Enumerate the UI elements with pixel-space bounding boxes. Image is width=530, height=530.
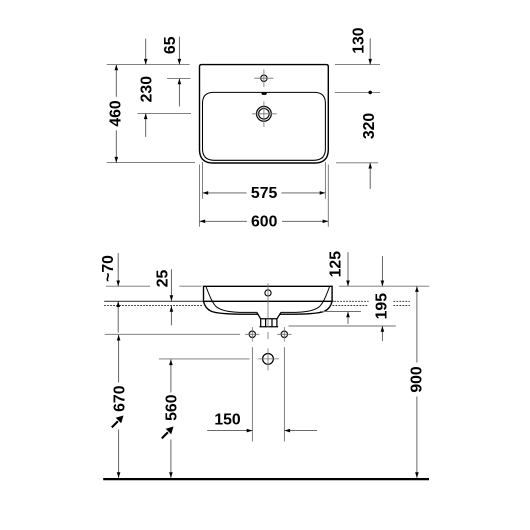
extension line bottom edge right (plan) <box>336 162 378 164</box>
basin interior left curve (elevation) <box>206 287 257 313</box>
dimension 600 line <box>200 220 329 222</box>
dimension 900 <box>416 286 418 478</box>
washbasin outer outline (plan) <box>200 65 329 163</box>
extension lines 575 (plan) <box>202 162 204 199</box>
svg-text:460: 460 <box>108 100 125 127</box>
extension line drain bottom right (195) <box>289 325 396 327</box>
wall line <box>104 300 334 302</box>
svg-text:130: 130 <box>351 27 368 54</box>
faucet hole crosshair (plan) <box>254 69 273 87</box>
dimension 25 <box>170 269 172 301</box>
dotted mounting line right <box>333 305 410 307</box>
floor line <box>103 478 429 480</box>
svg-text:195: 195 <box>373 293 390 320</box>
dimension 560 <box>170 359 172 478</box>
mounting hole right (elevation) <box>281 331 287 337</box>
approx arrow for 560 <box>162 432 168 438</box>
dimension 460 text <box>109 97 124 131</box>
extension line drain level (560) <box>159 358 250 360</box>
svg-text:560: 560 <box>163 394 180 421</box>
dimension 65 arrows <box>178 37 180 65</box>
svg-text:230: 230 <box>138 76 155 103</box>
svg-text:670: 670 <box>111 385 128 412</box>
washbasin rim outline (elevation) <box>204 286 333 301</box>
basin interior right curve (elevation) <box>281 287 330 313</box>
centerline (elevation) <box>267 283 269 339</box>
approx arrow for 670 <box>112 421 118 427</box>
dotted mounting line left <box>104 305 202 307</box>
extension line top edge left (plan) <box>107 64 190 66</box>
dimension 130 arrow <box>369 38 371 64</box>
dimension 150 <box>207 430 252 432</box>
svg-text:150: 150 <box>214 412 241 429</box>
drain nut (elevation) <box>260 319 279 327</box>
inner basin outline (plan) <box>203 92 326 160</box>
extension line mounting hole right down (150) <box>283 347 285 441</box>
extension line rim top left stub a <box>106 285 150 287</box>
faucet hole (plan) <box>261 75 267 81</box>
drain inner circle (plan) <box>259 109 270 120</box>
bowl underside left (elevation) <box>204 301 258 314</box>
extension line bowl bottom right (125) <box>320 311 361 313</box>
dimension 125 <box>347 252 349 286</box>
dimension 575 line <box>203 192 326 194</box>
junction dot 130/320 <box>368 91 372 95</box>
dimension 195 <box>381 256 383 286</box>
extension line mounting hole left down (150) <box>251 347 253 441</box>
drain outer circle (plan) <box>257 106 272 121</box>
extension line top edge right (plan) <box>335 64 380 66</box>
extension line bottom edge left (plan) <box>107 162 195 164</box>
dimension ~70 <box>117 253 119 286</box>
drain crosshair (plan) <box>252 102 277 128</box>
dimension 320 arrow <box>369 163 371 189</box>
dimension 600 text <box>247 214 282 230</box>
extension line basin top right (plan) <box>335 91 380 93</box>
extension line mounting holes level (670) <box>105 333 240 335</box>
svg-text:900: 900 <box>408 366 425 393</box>
extension lines 600 (plan) <box>199 165 201 227</box>
svg-text:600: 600 <box>251 214 278 231</box>
dimension 575 text <box>247 185 282 201</box>
overflow tick (plan) <box>261 93 267 95</box>
svg-text:575: 575 <box>251 185 278 202</box>
faucet hole (elevation) <box>265 290 271 296</box>
dimension 670 <box>118 335 120 478</box>
svg-text:25: 25 <box>154 270 171 288</box>
dimension 460 line <box>115 65 117 163</box>
extension line rim top right <box>339 285 429 287</box>
svg-text:65: 65 <box>162 36 179 54</box>
dotted wall line right upper <box>334 300 410 302</box>
extension line rim top left stub b <box>179 285 201 287</box>
svg-text:320: 320 <box>361 113 378 140</box>
extension line faucet level left (plan) <box>167 78 190 80</box>
svg-text:125: 125 <box>328 251 345 278</box>
drain pipe circle (elevation) <box>263 354 274 365</box>
dimension 230 arrows <box>145 39 147 65</box>
mounting hole left (elevation) <box>249 331 255 337</box>
bowl underside right (elevation) <box>280 301 332 314</box>
svg-text:~70: ~70 <box>100 255 117 282</box>
drain funnel slants (elevation) <box>257 312 281 318</box>
extension line drain level left (plan) <box>137 112 191 114</box>
